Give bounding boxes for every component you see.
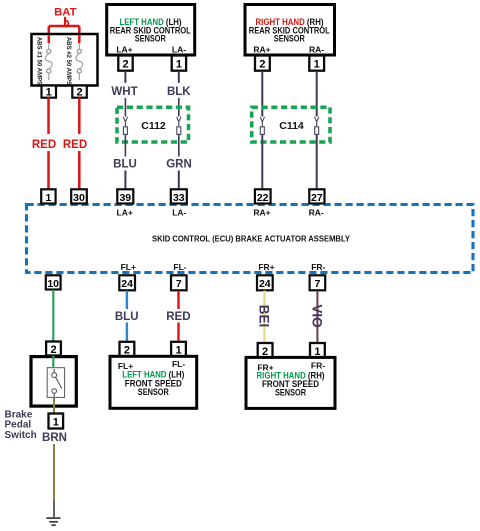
svg-text:ABS #1 50 AMPS: ABS #1 50 AMPS	[36, 37, 42, 85]
wire BLU ECU pin24 lower	[126, 323, 128, 342]
svg-text:RA-: RA-	[309, 208, 324, 218]
RH rear skid control sensor box	[245, 5, 335, 56]
wire LH pin1 to BLK	[178, 71, 180, 83]
connector C112 box	[117, 107, 189, 142]
wire BAT drop with hook	[65, 17, 68, 27]
svg-text:SENSOR: SENSOR	[138, 387, 170, 397]
svg-text:7: 7	[314, 278, 320, 290]
svg-text:39: 39	[119, 192, 131, 204]
svg-text:RED: RED	[32, 139, 56, 151]
svg-text:FL-: FL-	[172, 359, 185, 369]
svg-text:SKID CONTROL (ECU) BRAKE ACTUA: SKID CONTROL (ECU) BRAKE ACTUATOR ASSEMB…	[152, 234, 350, 244]
ECU pin 7 (FL-)	[171, 275, 187, 290]
svg-text:FR+: FR+	[258, 262, 274, 272]
wire C114 to ECU pin 22	[261, 134, 263, 189]
ECU pin 22	[255, 189, 271, 203]
wire RED fuse2 to ECU pin 30 (lower)	[78, 151, 81, 190]
ECU pin 24 (FL+)	[119, 275, 135, 290]
RH front sensor pin 2	[258, 343, 273, 357]
svg-text:RA-: RA-	[309, 45, 324, 55]
svg-text:27: 27	[311, 192, 323, 204]
svg-text:C112: C112	[141, 120, 166, 132]
svg-text:24: 24	[121, 278, 133, 290]
LH sensor pin 1	[172, 56, 186, 71]
wire BAT to fuse 1	[48, 26, 51, 43]
ECU pin 10	[46, 275, 61, 289]
svg-text:1: 1	[176, 59, 182, 71]
svg-text:GRN: GRN	[166, 159, 192, 171]
ground symbol	[46, 518, 60, 525]
wire VIO ECU pin7 to RH front sensor	[316, 291, 318, 344]
svg-text:SENSOR: SENSOR	[275, 388, 307, 398]
wire RED fuse1 to ECU pin 1 (lower)	[47, 151, 50, 190]
fuse pin 2	[72, 86, 87, 98]
switch contact top	[52, 373, 57, 378]
svg-text:LA+: LA+	[116, 45, 132, 55]
fuse F1 ABS #1 50 AMPS	[45, 43, 52, 80]
wire BAT to fuse 1 inner	[48, 36, 51, 44]
svg-text:1: 1	[53, 417, 59, 429]
wire C112 to GRN	[178, 134, 180, 156]
svg-text:LA-: LA-	[172, 45, 186, 55]
LH front sensor pin 2	[120, 342, 135, 356]
svg-text:2: 2	[76, 87, 82, 99]
wire LH pin2 to WHT	[124, 71, 126, 83]
svg-text:LA-: LA-	[172, 208, 186, 218]
svg-text:Switch: Switch	[5, 430, 37, 441]
ECU pin 39	[117, 189, 133, 203]
svg-text:22: 22	[257, 192, 269, 204]
wire GRN to ECU pin 33	[178, 171, 180, 190]
brake switch pin 1	[49, 414, 64, 429]
svg-text:C114: C114	[279, 120, 304, 132]
ECU pin 1	[41, 189, 55, 203]
ECU pin 27	[309, 189, 324, 203]
wire RH pin2 to C114	[261, 71, 263, 117]
connector C114 terminal B	[315, 117, 319, 135]
RH front sensor pin 1	[310, 343, 325, 357]
svg-text:30: 30	[73, 192, 85, 204]
wire BLU to ECU pin 39	[124, 171, 126, 190]
connector C112 terminal B	[177, 117, 181, 135]
wire BLK to C112	[178, 98, 180, 117]
svg-text:BRN: BRN	[42, 432, 67, 444]
svg-text:BLU: BLU	[115, 311, 139, 323]
LH front speed sensor box	[110, 356, 197, 408]
svg-text:ABS #2 50 AMPS: ABS #2 50 AMPS	[65, 37, 71, 85]
brake pedal switch box	[31, 357, 76, 407]
svg-text:7: 7	[176, 278, 182, 290]
svg-text:SENSOR: SENSOR	[135, 34, 167, 44]
switch leads	[53, 369, 55, 397]
switch inner frame	[47, 368, 64, 398]
wire GRN inside switch box	[52, 356, 54, 367]
connector C114 terminal A	[260, 117, 264, 135]
fuse pin 1	[42, 86, 57, 98]
svg-text:2: 2	[122, 59, 128, 71]
RH front speed sensor box	[246, 357, 335, 408]
fuse box	[32, 34, 98, 86]
wire C112 to BLU	[124, 134, 126, 156]
wire RED fuse1 to ECU pin 1 (upper)	[47, 98, 50, 134]
switch lever	[56, 377, 62, 388]
svg-text:FL+: FL+	[121, 262, 136, 272]
wire BRN to ground	[53, 444, 55, 501]
ECU pin 30	[71, 189, 87, 203]
RH sensor pin 2	[255, 56, 270, 71]
svg-text:1: 1	[45, 192, 51, 204]
svg-text:BLK: BLK	[167, 86, 191, 98]
wire BAT to fuse 2 inner	[78, 36, 81, 44]
svg-text:FR-: FR-	[311, 360, 325, 370]
ECU assembly dashed box	[27, 205, 474, 273]
LH sensor pin 2	[118, 56, 132, 71]
wire switch to pin1	[53, 397, 55, 413]
svg-text:10: 10	[47, 278, 59, 290]
wire RED ECU pin7 lower	[177, 323, 179, 342]
svg-text:RA+: RA+	[253, 208, 270, 218]
ECU pin 24 (FR+)	[257, 275, 273, 290]
svg-text:FL-: FL-	[173, 262, 186, 272]
RH sensor pin 1	[309, 56, 324, 71]
svg-text:VIO: VIO	[310, 304, 325, 327]
svg-text:RA+: RA+	[253, 45, 270, 55]
wire RED ECU pin7 upper	[177, 291, 179, 309]
svg-text:BEI: BEI	[257, 305, 272, 328]
svg-text:RED: RED	[63, 139, 87, 151]
switch contact bottom	[52, 389, 57, 394]
svg-text:LA+: LA+	[117, 208, 133, 218]
svg-text:FR-: FR-	[311, 262, 325, 272]
wire BAT to fuse 2	[78, 26, 81, 43]
svg-text:1: 1	[314, 59, 320, 71]
ECU pin 33	[171, 189, 187, 203]
wire ground lead	[53, 501, 55, 518]
svg-text:WHT: WHT	[111, 86, 137, 98]
LH front sensor pin 1	[171, 342, 186, 356]
svg-text:2: 2	[259, 59, 265, 71]
wire BLU ECU pin24 upper	[126, 291, 128, 309]
svg-text:24: 24	[259, 278, 271, 290]
svg-text:33: 33	[173, 192, 185, 204]
wire BAT horizontal bus	[49, 25, 80, 28]
svg-text:BAT: BAT	[54, 6, 76, 18]
LH rear skid control sensor box	[107, 5, 195, 56]
wire RED fuse2 to ECU pin 30 (upper)	[78, 98, 81, 134]
connector C114 box	[252, 107, 330, 142]
wire GRN ECU pin10 to brake switch	[52, 290, 54, 342]
wire C114 to ECU pin 27	[316, 134, 318, 189]
svg-text:RED: RED	[166, 311, 190, 323]
svg-text:1: 1	[46, 87, 52, 99]
svg-text:2: 2	[50, 344, 56, 356]
wire RH pin1 to C114	[316, 71, 318, 117]
fuse F2 ABS #2 50 AMPS	[76, 43, 83, 80]
svg-text:SENSOR: SENSOR	[274, 34, 306, 44]
brake switch pin 2	[46, 342, 61, 356]
ECU pin 7 (FR-)	[310, 275, 326, 290]
svg-text:BLU: BLU	[113, 159, 137, 171]
wire BEI ECU pin24 to RH front sensor	[263, 291, 265, 344]
wire WHT to C112	[124, 98, 126, 117]
connector C112 terminal A	[123, 117, 127, 135]
